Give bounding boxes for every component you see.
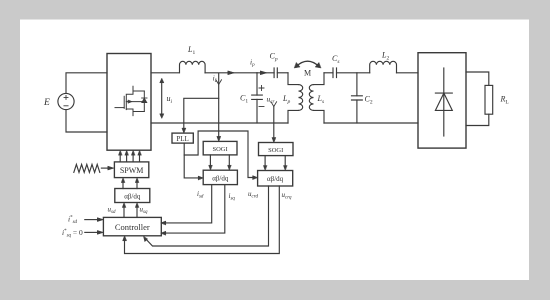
gate drive arrows to inverter bbox=[118, 150, 141, 162]
bottom rail secondary bbox=[324, 122, 418, 124]
secondary coil Ls bbox=[309, 73, 324, 123]
output wire top bbox=[466, 72, 489, 85]
MOSFET Q1 bbox=[115, 86, 147, 115]
alpha-beta/dq block 2 bbox=[258, 171, 293, 187]
voltage source E bbox=[58, 93, 74, 109]
wire i_L sense down to SOGI1 bbox=[218, 74, 220, 137]
SOGI block 2 bbox=[259, 143, 294, 156]
wire E bottom loop bbox=[66, 110, 107, 132]
diode D1 bbox=[435, 68, 452, 136]
dq to alpha-beta block (for SPWM) bbox=[115, 189, 150, 203]
rectifier box bbox=[418, 53, 466, 148]
capacitor Cs bbox=[333, 68, 337, 78]
C1 minus sign bbox=[259, 106, 264, 108]
output wire bottom bbox=[466, 114, 489, 125]
wire branch to PLL bbox=[184, 98, 219, 128]
bottom rail primary bbox=[151, 122, 288, 124]
capacitor C1 bbox=[252, 73, 263, 123]
PLL output branch wire to dq2 bbox=[184, 131, 253, 178]
arrows dq block to SPWM bbox=[121, 178, 139, 189]
SPWM block bbox=[114, 162, 148, 178]
current i_p arrow bbox=[261, 71, 268, 75]
wire C1 node to Cp bbox=[257, 72, 274, 74]
svg-text:SOGI: SOGI bbox=[213, 146, 228, 153]
SOGI1 output arrows bbox=[209, 155, 232, 170]
wire E top loop bbox=[66, 73, 107, 94]
svg-text:M: M bbox=[304, 69, 311, 78]
arrow on rail bbox=[228, 71, 235, 75]
mutual coupling M arc bbox=[294, 61, 321, 68]
svg-text:SOGI: SOGI bbox=[268, 147, 283, 154]
inductor L2 bbox=[370, 61, 397, 72]
inductor L1 bbox=[180, 61, 206, 72]
svg-text:αβ/dq: αβ/dq bbox=[124, 193, 141, 201]
inverter U1 box bbox=[107, 54, 151, 151]
svg-text:SPWM: SPWM bbox=[120, 166, 144, 175]
svg-text:αβ/dq: αβ/dq bbox=[267, 175, 284, 183]
arrow carrier to SPWM bbox=[101, 167, 108, 169]
PLL block bbox=[172, 133, 193, 143]
C1 plus sign bbox=[259, 86, 264, 91]
svg-text:Controller: Controller bbox=[115, 222, 150, 232]
current i_L open arrowhead bbox=[216, 80, 222, 85]
wire L2 to rectifier bbox=[397, 72, 419, 74]
svg-text:PLL: PLL bbox=[176, 135, 188, 143]
resistor RL bbox=[485, 85, 493, 114]
voltage u_i measurement arrow bbox=[160, 78, 164, 118]
SOGI2 output arrows bbox=[263, 156, 287, 171]
u_sd u_sq arrows controller to dq block bbox=[122, 203, 139, 218]
sawtooth carrier symbol bbox=[74, 164, 100, 172]
wire L1 to C1 node bbox=[205, 72, 257, 74]
wire Ls to Cs bbox=[324, 72, 333, 74]
SOGI block 1 bbox=[203, 141, 237, 155]
capacitor Cp bbox=[274, 68, 277, 78]
svg-text:E: E bbox=[43, 98, 50, 108]
Controller block bbox=[103, 217, 161, 235]
wire Cp to Lp bbox=[277, 72, 288, 74]
PLL output wire to dq1 bbox=[184, 143, 199, 178]
svg-text:αβ/dq: αβ/dq bbox=[212, 174, 229, 182]
primary coil Lp bbox=[288, 73, 303, 123]
alpha-beta/dq block 1 bbox=[203, 170, 237, 184]
wire inverter to L1 bbox=[151, 72, 179, 74]
capacitor C2 bbox=[352, 73, 363, 123]
wire Cs to L2 bbox=[337, 72, 370, 74]
